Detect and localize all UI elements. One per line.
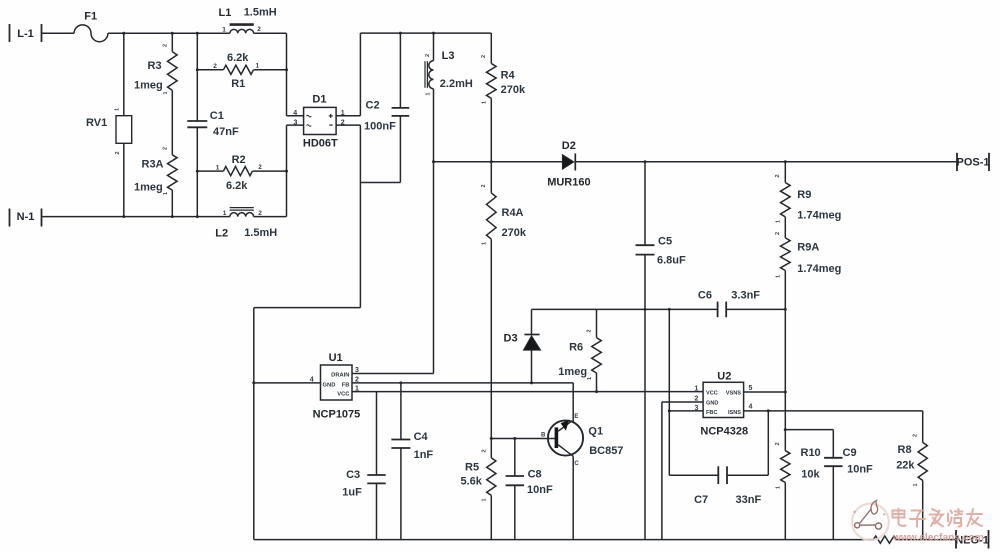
svg-text:DRAIN: DRAIN [331, 373, 349, 379]
svg-text:1: 1 [482, 101, 488, 104]
wire L1 right to bridge [254, 32, 287, 34]
svg-text:1meg: 1meg [134, 182, 163, 194]
wire junctions [122, 32, 787, 440]
svg-text:10nF: 10nF [847, 463, 873, 475]
svg-text:270k: 270k [502, 227, 527, 239]
svg-text:RV1: RV1 [86, 117, 107, 129]
svg-text:2: 2 [587, 329, 593, 332]
wire left vertical to D1 pin4 [286, 33, 288, 116]
wire R3 to R3A [171, 90, 173, 155]
svg-text:4: 4 [749, 403, 753, 410]
op-amp U1 NCP1075 [310, 352, 361, 420]
svg-text:2: 2 [913, 434, 919, 437]
resistor R10 [775, 430, 820, 540]
resistor R9 [775, 162, 841, 223]
svg-text:R9A: R9A [797, 241, 819, 253]
wire L input [42, 32, 75, 34]
watermark logo elecfans [852, 501, 984, 544]
svg-text:2: 2 [341, 119, 345, 126]
svg-text:1meg: 1meg [134, 80, 163, 92]
svg-text:1: 1 [426, 92, 432, 95]
wire feedback node line [532, 308, 718, 310]
diode D3 [504, 309, 541, 383]
wire top rail [360, 32, 491, 34]
svg-text:www.elecfans.com: www.elecfans.com [892, 533, 984, 544]
resistor R1 [197, 52, 286, 90]
svg-text:L1: L1 [219, 7, 232, 19]
svg-text:D1: D1 [312, 93, 326, 105]
svg-text:6.2k: 6.2k [227, 52, 249, 64]
svg-text:R8: R8 [898, 444, 912, 456]
svg-text:4: 4 [293, 110, 297, 117]
svg-text:2.2mH: 2.2mH [440, 78, 473, 90]
resistor R5 [461, 439, 496, 540]
capacitor C6 [698, 289, 760, 317]
svg-text:1: 1 [482, 242, 488, 245]
svg-text:R3A: R3A [142, 159, 164, 171]
wire R9 to R9A [784, 217, 786, 238]
svg-text:1: 1 [163, 91, 169, 94]
svg-text:2: 2 [425, 54, 431, 57]
transistor Q1 BC857 [541, 414, 623, 540]
svg-text:VSNS: VSNS [726, 391, 742, 397]
svg-text:VCC: VCC [337, 392, 350, 398]
svg-text:2: 2 [481, 449, 487, 452]
svg-text:U2: U2 [717, 370, 731, 382]
capacitor C5 [636, 162, 687, 540]
svg-text:1: 1 [223, 210, 227, 217]
svg-text:R2: R2 [232, 154, 246, 166]
wire N input [42, 216, 230, 218]
svg-text:1: 1 [256, 63, 260, 70]
capacitor C3 [342, 392, 385, 540]
inductor L2 [215, 208, 277, 240]
wire U1 pin2 FB line [352, 382, 573, 384]
wire FBC vertical [668, 309, 670, 475]
svg-text:1: 1 [695, 386, 699, 393]
wire FB to Q1 emitter [572, 383, 574, 420]
svg-text:Q1: Q1 [588, 425, 603, 437]
svg-text:B: B [541, 433, 546, 439]
svg-text:U1: U1 [329, 352, 343, 364]
svg-text:MUR160: MUR160 [547, 176, 590, 188]
svg-text:R10: R10 [801, 447, 821, 459]
terminal NEG-1 [955, 530, 989, 549]
svg-text:R6: R6 [569, 342, 583, 354]
svg-text:C: C [574, 461, 579, 467]
svg-text:NCP1075: NCP1075 [313, 408, 361, 420]
svg-text:GND: GND [323, 382, 336, 388]
wire U1 pin1 VCC line [352, 391, 703, 393]
svg-text:1: 1 [776, 220, 782, 223]
svg-text:FB: FB [342, 382, 350, 388]
resistor R9A [775, 232, 841, 278]
svg-text:2: 2 [775, 442, 781, 445]
svg-text:R5: R5 [465, 461, 479, 473]
svg-text:1nF: 1nF [414, 449, 434, 461]
svg-text:2: 2 [481, 55, 487, 58]
wire D1 pin2 down [359, 125, 361, 308]
svg-text:2: 2 [481, 184, 487, 187]
svg-text:1: 1 [115, 108, 121, 111]
wire rail L3 to D2 [434, 161, 563, 163]
svg-text:R9: R9 [797, 189, 811, 201]
svg-text:N-1: N-1 [17, 211, 35, 223]
svg-text:2: 2 [775, 232, 781, 235]
sense resistor in rail [873, 536, 896, 543]
svg-text:6.8uF: 6.8uF [657, 254, 686, 266]
wire right vertical D1 pin3 [286, 125, 288, 217]
svg-text:BC857: BC857 [589, 445, 623, 457]
resistor R3 [134, 33, 177, 94]
wire R4A down to base node [490, 239, 492, 438]
resistor R8 [896, 411, 927, 540]
svg-text:L2: L2 [215, 228, 228, 240]
svg-text:L-1: L-1 [17, 28, 34, 40]
varistor RV1 [86, 33, 132, 216]
bridge rectifier D1 [287, 93, 361, 149]
svg-text:2: 2 [258, 164, 262, 171]
svg-text:D2: D2 [562, 140, 576, 152]
svg-text:2: 2 [163, 44, 169, 47]
capacitor C8 [506, 439, 553, 540]
svg-text:1.74meg: 1.74meg [797, 209, 841, 221]
svg-text:C5: C5 [658, 235, 672, 247]
svg-text:47nF: 47nF [213, 126, 239, 138]
svg-text:2: 2 [257, 26, 261, 33]
svg-text:GND: GND [706, 401, 718, 407]
capacitor C7 [669, 411, 768, 506]
svg-text:C8: C8 [528, 468, 542, 480]
svg-text:POS-1: POS-1 [956, 157, 989, 169]
resistor R6 [558, 309, 601, 391]
svg-text:2: 2 [258, 210, 262, 217]
svg-text:FBC: FBC [706, 410, 718, 416]
svg-text:D3: D3 [504, 332, 518, 344]
resistor R4 [481, 33, 526, 162]
svg-text:3: 3 [294, 119, 298, 126]
svg-text:ISNS: ISNS [728, 410, 741, 416]
svg-text:E: E [574, 414, 578, 420]
svg-text:1: 1 [216, 165, 220, 172]
inductor L1 [219, 6, 277, 33]
wire C6 to R9A node [726, 308, 785, 310]
svg-text:R1: R1 [231, 78, 245, 90]
svg-text:2: 2 [115, 151, 121, 154]
wire L2 to right vertical [254, 216, 287, 218]
wire rail D2 to POS-1 [575, 161, 957, 163]
svg-text:10k: 10k [801, 468, 820, 480]
wire U1 pin4 GND [254, 382, 321, 384]
svg-text:3.3nF: 3.3nF [731, 289, 760, 301]
svg-text:22k: 22k [896, 460, 915, 472]
svg-text:1uF: 1uF [342, 486, 362, 498]
wire gnd jog left [254, 307, 361, 309]
svg-text:1.5mH: 1.5mH [244, 227, 277, 239]
wire left long vertical [253, 308, 255, 540]
svg-text:6.2k: 6.2k [226, 180, 248, 192]
svg-text:HD06T: HD06T [303, 137, 338, 149]
svg-text:C3: C3 [346, 469, 360, 481]
svg-text:C9: C9 [843, 447, 857, 459]
svg-text:270k: 270k [501, 84, 526, 96]
capacitor C2 [364, 33, 409, 182]
wire L line to L1 [108, 32, 230, 34]
svg-text:C7: C7 [694, 494, 708, 506]
svg-text:NCP4328: NCP4328 [700, 425, 748, 437]
svg-text:1: 1 [587, 377, 593, 380]
fuse F1 [74, 11, 108, 42]
svg-text:2: 2 [213, 63, 217, 70]
capacitor C4 [391, 383, 433, 540]
op-amp U2 NCP4328 [695, 370, 753, 437]
inductor L3 [425, 33, 473, 373]
svg-text:VCC: VCC [706, 391, 718, 397]
resistor R4A [481, 162, 527, 245]
svg-text:R4: R4 [501, 69, 516, 81]
svg-text:2: 2 [775, 174, 781, 177]
svg-text:R4A: R4A [502, 207, 524, 219]
wire U2 pin2 GND [662, 402, 703, 540]
svg-text:5: 5 [749, 385, 753, 392]
svg-text:R3: R3 [148, 60, 162, 72]
diode D2 [547, 140, 590, 189]
capacitor C1 [187, 33, 239, 216]
svg-text:1meg: 1meg [558, 366, 587, 378]
svg-text:33nF: 33nF [736, 494, 762, 506]
wire base line [491, 438, 555, 440]
svg-text:1: 1 [163, 192, 169, 195]
capacitor C9 [824, 430, 873, 540]
svg-text:C2: C2 [366, 100, 380, 112]
svg-text:5.6k: 5.6k [461, 475, 483, 487]
wire U2 pin3 FBC [669, 410, 703, 412]
wire R10 C9 link [785, 429, 833, 431]
terminal POS-1 [956, 153, 989, 171]
svg-text:1: 1 [776, 275, 782, 278]
svg-text:1: 1 [913, 483, 919, 486]
svg-text:C1: C1 [210, 110, 224, 122]
svg-text:1: 1 [776, 486, 782, 489]
svg-text:1: 1 [341, 110, 345, 117]
resistor R3A [134, 147, 177, 217]
svg-text:10nF: 10nF [527, 484, 553, 496]
wire U1 pin3 drain [352, 373, 434, 375]
svg-text:F1: F1 [84, 11, 97, 23]
svg-text:C6: C6 [698, 289, 712, 301]
svg-text:1: 1 [482, 498, 488, 501]
wire U2 pin5 VSNS [744, 391, 786, 393]
svg-text:1: 1 [222, 27, 226, 34]
terminal L-1 [10, 24, 42, 42]
svg-text:L3: L3 [442, 50, 455, 62]
svg-text:C4: C4 [414, 431, 429, 443]
svg-text:1.74meg: 1.74meg [797, 263, 841, 275]
svg-text:100nF: 100nF [364, 120, 396, 132]
svg-text:2: 2 [163, 147, 169, 150]
wire R9A down to VSNS [784, 271, 786, 393]
wire rail to NEG-1 [896, 539, 956, 541]
wire D1 pin1 up to top rail [359, 33, 361, 116]
wire U2 pin4 ISNS [744, 410, 923, 412]
resistor R2 [197, 154, 286, 192]
wire bottom rail [254, 539, 874, 541]
svg-text:1.5mH: 1.5mH [244, 6, 277, 18]
wire VSNS down to R10 [784, 392, 786, 430]
wire C2 bottom link [360, 182, 400, 184]
terminal N-1 [10, 209, 42, 227]
